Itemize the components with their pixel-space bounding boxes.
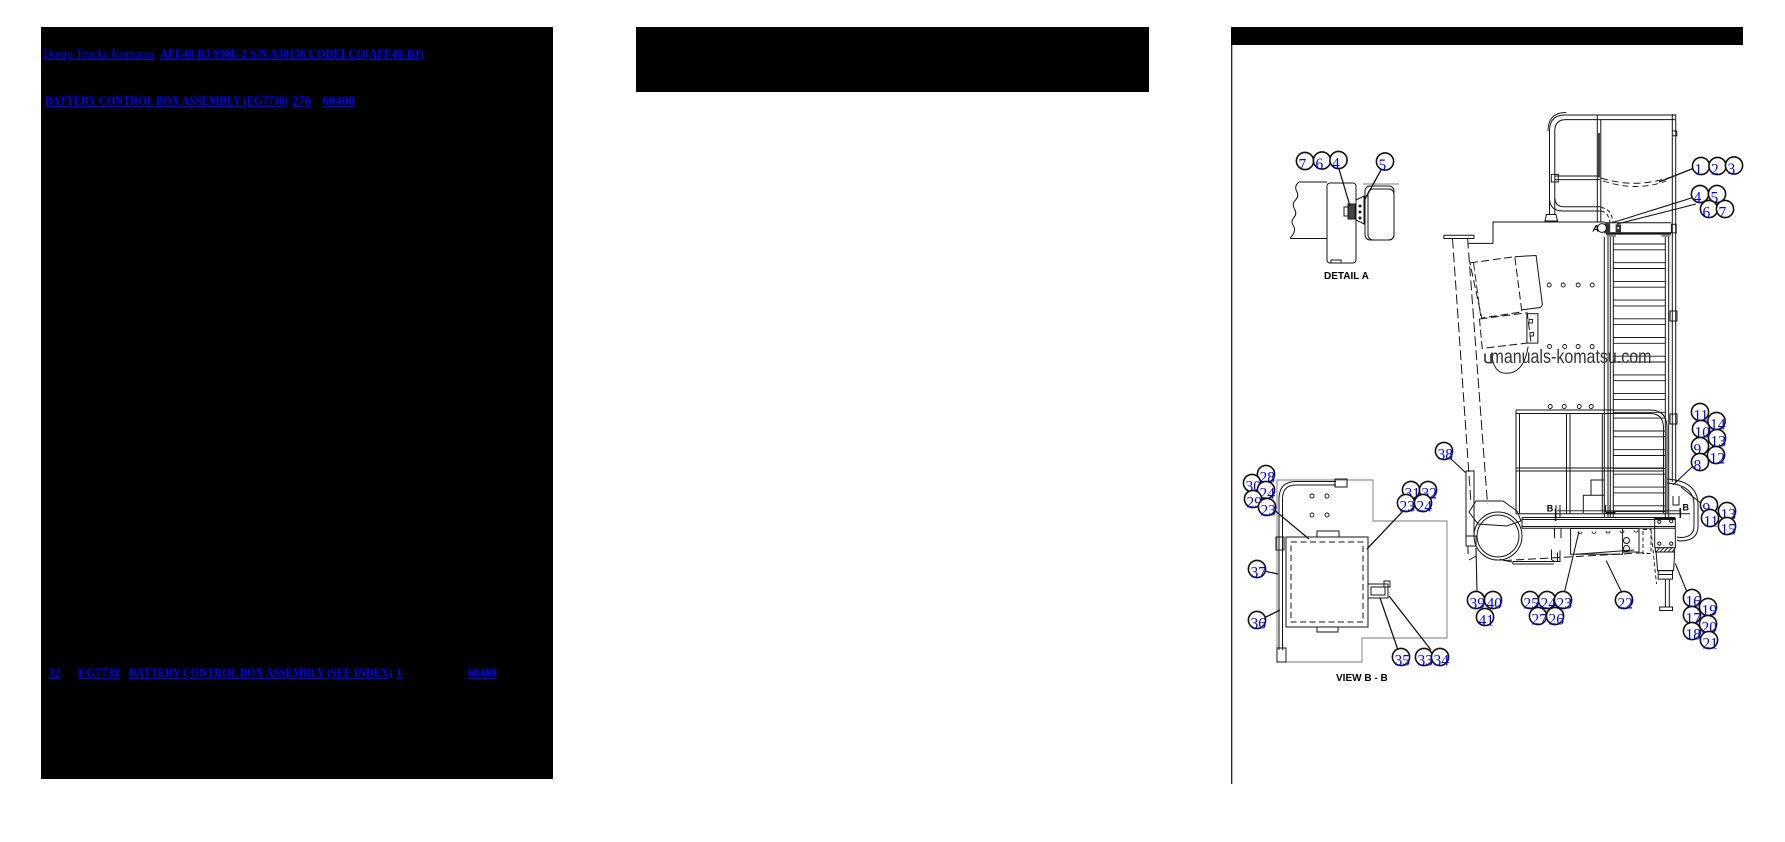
A balloon on platform <box>1598 224 1607 233</box>
right panel top black bar <box>1231 27 1743 45</box>
platform gray pads <box>1607 235 1617 237</box>
cab tilted box 2 <box>1515 256 1543 310</box>
dome arc under cab <box>1492 347 1529 374</box>
detail A tall plate <box>1327 183 1356 263</box>
balloon 16 <box>1683 589 1701 610</box>
wall verticals lower <box>1672 223 1675 482</box>
rail bottom end cap <box>1277 648 1286 662</box>
svg-text:34: 34 <box>1434 653 1450 670</box>
balloon 14 <box>1708 412 1726 433</box>
view B-B outer outline <box>1277 480 1447 662</box>
balloon 23 <box>1554 591 1572 612</box>
svg-text:6: 6 <box>1703 205 1711 222</box>
balloon 32 <box>1419 481 1437 502</box>
cage mid rail <box>1516 468 1664 471</box>
inset box outer <box>1286 537 1368 627</box>
leader from balloon 4 to bolt <box>1339 169 1350 206</box>
leader 8 <box>1673 466 1693 485</box>
balloon 13 <box>1708 429 1726 450</box>
balloon 29 <box>1244 490 1262 511</box>
handrail mid post <box>1597 115 1601 222</box>
header link line 2 <box>45 94 288 107</box>
balloon 23R <box>1397 494 1415 515</box>
svg-text:23: 23 <box>1400 499 1416 516</box>
svg-text:2: 2 <box>1711 162 1719 179</box>
svg-text:18: 18 <box>1686 627 1702 644</box>
inset box bottom tab <box>1317 627 1338 632</box>
detail A top thin line <box>1363 183 1399 185</box>
inset box dashed inner <box>1291 542 1363 622</box>
svg-text:12: 12 <box>1710 451 1726 468</box>
right wall verticals <box>1672 114 1675 223</box>
left black panel <box>41 27 553 779</box>
balloon 8 <box>1691 453 1708 474</box>
leader 37 <box>1264 571 1278 574</box>
balloon 11b <box>1701 509 1718 530</box>
header link line 1 regular part <box>43 47 155 60</box>
svg-text:4: 4 <box>1694 190 1702 207</box>
leader to balloons 4-7 <box>1613 198 1696 225</box>
balloon 18 <box>1683 622 1701 643</box>
bent rail vertical <box>1279 499 1283 650</box>
svg-text:3: 3 <box>1728 161 1736 178</box>
leg rod <box>1665 579 1669 607</box>
balloon 15 <box>1718 517 1736 538</box>
svg-text:11: 11 <box>1704 514 1719 531</box>
svg-text:DETAIL A: DETAIL A <box>1324 271 1369 282</box>
leader 23/24 left <box>1273 509 1309 539</box>
svg-text:B: B <box>1547 504 1554 514</box>
svg-text:23: 23 <box>1261 503 1277 520</box>
balloon 19 <box>1699 598 1717 619</box>
leg T-foot <box>1660 607 1673 611</box>
ladder left rails <box>1604 237 1613 517</box>
mast pole dashed diagonals <box>1453 239 1488 505</box>
M hook under deck <box>1552 550 1561 562</box>
svg-text:24: 24 <box>1417 499 1433 516</box>
top middle black bar <box>636 27 1149 92</box>
svg-text:36: 36 <box>1251 616 1267 633</box>
watermark U glyph <box>1485 354 1491 363</box>
pivot circle outer <box>1474 512 1522 560</box>
leader 38 <box>1450 458 1466 473</box>
cage mid post <box>1567 414 1603 515</box>
platform mount blocks <box>1605 223 1610 232</box>
svg-text:41: 41 <box>1479 613 1495 630</box>
connector box <box>1368 584 1388 598</box>
balloon 27 <box>1529 607 1547 628</box>
balloon 22 <box>1615 591 1633 612</box>
balloon 34 <box>1431 648 1449 669</box>
cage bottom line <box>1516 513 1690 515</box>
platform under dark line <box>1606 233 1671 235</box>
under frame left edge <box>1513 562 1554 565</box>
balloon 7 <box>1716 200 1733 221</box>
balloon 24 <box>1538 591 1556 612</box>
balloon 2 <box>1709 157 1726 178</box>
rail clip <box>1276 537 1284 550</box>
balloon 28 <box>1257 465 1275 486</box>
svg-text:7: 7 <box>1719 205 1727 222</box>
right mount bracket plate <box>1655 519 1676 548</box>
cage posts to deck <box>1556 505 1610 518</box>
header link line 1 bold part <box>160 47 424 60</box>
pivot circle inner <box>1477 515 1519 557</box>
balloon 40 <box>1484 591 1502 612</box>
leader 16-21 <box>1675 564 1687 593</box>
rail clips <box>1670 311 1677 321</box>
cage left post <box>1516 410 1520 514</box>
leader 36 <box>1264 610 1280 618</box>
ladder right rails <box>1665 237 1668 517</box>
battery box on deck <box>1571 529 1623 555</box>
svg-text:21: 21 <box>1703 636 1719 653</box>
inset box top tab <box>1317 531 1339 537</box>
mid rail left clip <box>1551 174 1558 182</box>
balloon 35 <box>1392 648 1410 669</box>
svg-text:22: 22 <box>1618 596 1634 613</box>
bolt dots row 2 <box>1548 345 1595 349</box>
bolt dots row deck <box>1578 530 1638 534</box>
balloon 21 <box>1700 631 1718 652</box>
handrail mid rail <box>1555 176 1600 180</box>
support leg body <box>1656 552 1675 571</box>
mid post thick segment <box>1598 133 1600 178</box>
balloon 37 <box>1248 560 1266 581</box>
truck body top edge <box>1468 222 1604 243</box>
balloon 26 <box>1546 607 1564 628</box>
deck bar <box>1522 518 1675 529</box>
step base dark block <box>1606 512 1616 514</box>
leader 35 <box>1380 598 1398 650</box>
dashed hidden piece right <box>1643 530 1651 554</box>
detail A bolt (part 4) <box>1348 204 1355 219</box>
hatched band <box>1655 548 1674 552</box>
svg-text:27: 27 <box>1532 612 1548 629</box>
svg-text:35: 35 <box>1395 653 1411 670</box>
battery box ear circles <box>1624 538 1630 544</box>
balloon 20 <box>1699 615 1717 636</box>
handrail top loop <box>1550 115 1676 211</box>
balloon 6 detail <box>1313 152 1330 173</box>
svg-text:5: 5 <box>1379 157 1387 174</box>
part row <box>49 666 61 679</box>
svg-text:26: 26 <box>1549 612 1565 629</box>
svg-text:1: 1 <box>1695 162 1703 179</box>
balloon 23L <box>1258 498 1276 519</box>
small clip on grab rail <box>1673 496 1679 505</box>
svg-text:VIEW B - B: VIEW B - B <box>1336 673 1388 684</box>
mast cap <box>1444 235 1474 238</box>
svg-text:A: A <box>1592 224 1600 234</box>
svg-text:8: 8 <box>1694 458 1702 475</box>
balloon 9 <box>1691 437 1708 458</box>
balloon 5 detail <box>1376 153 1393 174</box>
deck small verticals <box>1555 529 1562 539</box>
inset bolts <box>1310 494 1314 498</box>
bent rail top <box>1279 482 1336 500</box>
balloon 4 <box>1691 185 1708 206</box>
balloon 3 <box>1725 157 1742 178</box>
handrail top loop outer arc <box>1548 113 1566 132</box>
svg-text:4: 4 <box>1332 156 1340 173</box>
leader 39-41 <box>1476 548 1477 592</box>
balloon 25 <box>1521 591 1539 612</box>
cab box1 left double edge <box>1474 262 1481 317</box>
svg-text:38: 38 <box>1438 447 1454 464</box>
housing link lines <box>1469 556 1512 562</box>
balloon 9b <box>1700 496 1717 517</box>
detail A left plate with wavy break edge <box>1291 182 1328 239</box>
dashed lanyard swags <box>1601 177 1671 183</box>
rail top end cap <box>1335 479 1347 487</box>
balloon 30 <box>1243 474 1261 495</box>
balloon 17 <box>1683 606 1701 627</box>
leader to balloons 1-3 <box>1659 169 1693 183</box>
handrail left foot <box>1545 215 1558 222</box>
svg-text:6: 6 <box>1316 156 1324 173</box>
leader 22 <box>1606 561 1621 592</box>
leader 33/34 <box>1389 596 1431 650</box>
wall joint tick <box>1672 131 1677 136</box>
right panel left border line <box>1231 45 1233 784</box>
right diagram panel <box>1231 0 1785 842</box>
leader 23-27 group <box>1565 531 1580 592</box>
svg-text:manuals-komatsu.com: manuals-komatsu.com <box>1491 346 1652 368</box>
cab bracket <box>1527 314 1538 343</box>
balloon 6 <box>1700 200 1717 221</box>
leader from balloon 5 to clamp <box>1365 170 1381 199</box>
balloon 24R <box>1414 494 1432 515</box>
balloon 13b <box>1718 502 1736 523</box>
balloon 12 <box>1707 446 1725 467</box>
balloon 38 <box>1435 442 1453 463</box>
balloon 10 <box>1692 420 1710 441</box>
balloon 24L <box>1257 481 1275 502</box>
platform bar <box>1604 223 1671 233</box>
balloon 4 detail <box>1330 151 1347 172</box>
cab tilted box 3 <box>1480 313 1532 349</box>
deck bottom slant dashed <box>1504 553 1648 561</box>
leader lower 9-15 <box>1681 487 1703 505</box>
balloon 39 <box>1467 591 1485 612</box>
svg-text:15: 15 <box>1721 522 1737 539</box>
balloon 36 <box>1248 611 1266 632</box>
ladder rungs <box>1613 244 1665 512</box>
B-B section line <box>1557 510 1680 512</box>
balloon 1 <box>1692 157 1709 178</box>
cab tilted box 1 <box>1470 257 1522 318</box>
detail A right clamp rounded rect <box>1365 186 1394 240</box>
svg-text:B: B <box>1683 503 1690 513</box>
balloon 11 <box>1691 403 1708 424</box>
balloon 31 <box>1402 481 1420 502</box>
leg clamp <box>1658 571 1672 580</box>
balloon 5 <box>1708 185 1725 206</box>
support pole foot <box>1469 501 1521 526</box>
cage top rail <box>1516 410 1667 513</box>
balloon 41 <box>1476 608 1494 629</box>
bolt dots row 1 <box>1547 283 1594 287</box>
detail A hex spacer <box>1356 196 1364 224</box>
svg-text:37: 37 <box>1251 565 1267 582</box>
platform end cap <box>1671 224 1676 233</box>
bolt dots on cage top <box>1548 405 1593 409</box>
cage step <box>1583 480 1604 513</box>
right grab rail J-shape <box>1667 479 1698 541</box>
part 38 plate <box>1466 471 1474 536</box>
balloon 7 detail <box>1296 152 1313 173</box>
svg-text:7: 7 <box>1299 157 1307 174</box>
balloon 33 <box>1415 648 1433 669</box>
leader 31/32 <box>1367 510 1404 549</box>
post base corner curve dashed <box>1601 208 1613 223</box>
